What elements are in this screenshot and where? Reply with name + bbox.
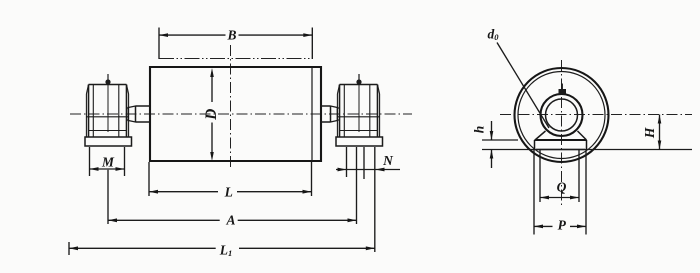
svg-text:H: H: [642, 127, 657, 139]
svg-text:L: L: [224, 184, 233, 199]
svg-text:A: A: [225, 212, 235, 227]
svg-text:M: M: [101, 154, 115, 169]
svg-text:P: P: [558, 218, 567, 233]
svg-text:Q: Q: [557, 180, 567, 195]
svg-text:D: D: [203, 109, 220, 121]
svg-text:N: N: [382, 153, 394, 168]
svg-text:h: h: [472, 126, 487, 134]
svg-text:B: B: [226, 28, 236, 43]
